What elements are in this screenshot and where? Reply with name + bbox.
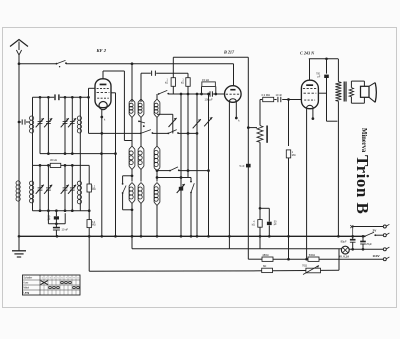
- resistor R 15k bridge: [201, 87, 203, 95]
- wire bus y165 with resistor: [33, 164, 51, 166]
- switch S7 grid: [158, 93, 160, 95]
- trimmer capacitor CT5: [39, 165, 41, 210]
- svg-text:30 kΩ: 30 kΩ: [50, 158, 57, 162]
- trimmer capacitor CT1: [39, 97, 41, 153]
- wire C243N cathode leg: [306, 109, 308, 260]
- coil L3 on antenna line: [16, 181, 20, 185]
- svg-text:70Ω: 70Ω: [302, 264, 307, 268]
- wire plate stub: [318, 92, 326, 94]
- wire y133 tap line: [89, 132, 141, 134]
- capacitor C 5nF: [246, 164, 251, 168]
- wire bottom y271: [89, 270, 262, 272]
- wire KF2 cap to IF tap: [123, 71, 125, 141]
- switch table: [23, 275, 81, 295]
- svg-text:kΩ: kΩ: [181, 82, 184, 85]
- wire drop x181: [180, 94, 182, 236]
- resistor R 1k grid: [172, 57, 174, 78]
- wire drop x89 below bus: [88, 236, 90, 271]
- capacitor C 10nF series: [277, 97, 279, 102]
- antenna: [10, 40, 28, 47]
- wire x248 long vertical: [247, 57, 249, 259]
- switch S2 mid: [138, 120, 140, 122]
- trimmer capacitor CT7: [64, 165, 66, 210]
- svg-text:5 nF: 5 nF: [240, 165, 245, 168]
- svg-text:10 nF: 10 nF: [276, 93, 283, 97]
- svg-text:Schalter: Schalter: [23, 277, 32, 280]
- junction dots on main bus: [18, 235, 21, 238]
- switch S1 on antenna wire: [56, 63, 58, 65]
- coil L1: [32, 97, 34, 116]
- wire oscillator switch line y170: [157, 170, 170, 172]
- wire top y64: [19, 63, 57, 65]
- capacitor C 100pF series: [209, 91, 211, 96]
- svg-text:80μF: 80μF: [341, 239, 347, 243]
- svg-text:480Ω: 480Ω: [262, 253, 268, 257]
- capacitor C 80uF electrolytic: [352, 236, 354, 239]
- tube KF2: [95, 79, 111, 108]
- tube B217 base hump: [229, 99, 236, 102]
- coil L4: [32, 165, 34, 181]
- svg-text:MΩ: MΩ: [92, 189, 96, 191]
- wire bracket y177: [157, 177, 192, 179]
- coil IF1 primary: [131, 64, 133, 102]
- capacitor C 50pF loop: [47, 211, 49, 224]
- svg-text:100 μF: 100 μF: [205, 98, 214, 102]
- svg-text:MΩ: MΩ: [92, 225, 96, 227]
- tube B217: [225, 86, 242, 103]
- tube C243N: [301, 80, 318, 109]
- capacitor C-ant series: [19, 121, 21, 123]
- speaker LS1 secondary loop: [351, 80, 364, 82]
- wire antenna vertical: [18, 55, 20, 181]
- wire resistor line y259: [248, 258, 262, 260]
- trimmer capacitor CT11 drop x197: [196, 94, 198, 236]
- wire KF2 top cap: [102, 71, 104, 79]
- trimmer capacitor CT2: [47, 97, 49, 153]
- wire top y57: [173, 56, 248, 58]
- terminal T-110V: [383, 258, 386, 261]
- svg-text:MΩ: MΩ: [292, 154, 296, 157]
- terminal T-2V: [383, 234, 386, 237]
- terminal T-top: [383, 225, 386, 228]
- switch S6 vertical: [190, 178, 192, 182]
- resistor R 480ohm: [262, 257, 273, 261]
- svg-text:Minerva: Minerva: [360, 128, 367, 153]
- svg-text:Kurz: Kurz: [23, 282, 29, 285]
- svg-text:15 kΩ: 15 kΩ: [202, 78, 209, 82]
- resistor R 8ohm: [262, 268, 273, 272]
- table marks: [41, 281, 48, 285]
- svg-text:0,3 MΩ: 0,3 MΩ: [262, 93, 270, 97]
- wire y73 coupling: [141, 72, 151, 74]
- ground: [18, 236, 20, 250]
- resistor R 500ohm: [308, 257, 319, 261]
- wire B217 grid cap drop: [233, 64, 235, 86]
- resistor R 1k second: [187, 73, 189, 78]
- trimmer capacitor CT9: [172, 114, 174, 133]
- capacitor C-series on bus y97: [54, 94, 56, 100]
- capacitor C 10nF to chassis: [55, 224, 57, 228]
- transformer T1 core: [343, 82, 345, 102]
- wire bus2 y248: [131, 236, 133, 249]
- wire plate top y58: [309, 59, 311, 80]
- resistor R 1.2M: [88, 165, 90, 184]
- wire corner up x339: [338, 249, 340, 270]
- wire B217 cathode leg: [235, 102, 237, 119]
- capacitor C-series y73: [151, 71, 153, 76]
- wire B217 anode leg: [228, 102, 230, 249]
- wire bus y210: [33, 210, 90, 212]
- switch S4 jog left: [123, 175, 132, 177]
- lamp LA1 4V: [341, 246, 349, 254]
- svg-text:4V, 0,1A: 4V, 0,1A: [339, 255, 350, 259]
- speaker LS1 driver: [361, 86, 370, 97]
- switch S8 2V: [364, 235, 366, 237]
- wire KF2 cathode: [101, 110, 103, 237]
- wire y118 stub: [157, 113, 173, 115]
- wire KF2 grid left: [89, 87, 96, 89]
- trimmer capacitor CT6: [47, 165, 49, 210]
- resistor R 3.4M: [87, 220, 91, 228]
- svg-text:Trion B: Trion B: [353, 155, 372, 214]
- transformer T1 primary: [337, 59, 339, 82]
- svg-text:Mittel: Mittel: [23, 287, 29, 290]
- wire pot stub: [248, 127, 257, 129]
- wire bus y153: [40, 153, 116, 155]
- resistor R 0.3M: [263, 97, 274, 101]
- switch S5: [169, 170, 171, 172]
- wire C243N k leg: [312, 109, 314, 120]
- svg-text:25μF: 25μF: [366, 243, 372, 246]
- resistor R 30k: [50, 163, 61, 167]
- wire to transformer bottom: [327, 120, 338, 122]
- switch S3a on tap line: [140, 133, 142, 135]
- coil L2: [79, 97, 81, 116]
- coil IF1 secondary: [140, 73, 142, 102]
- terminal T-4V: [383, 248, 386, 251]
- svg-text:KF 2: KF 2: [96, 48, 107, 53]
- resistor R 1M: [288, 100, 290, 147]
- tube KF2 base circle: [99, 102, 107, 110]
- capacitor C 50uF cathode: [260, 207, 269, 209]
- svg-text:Lang: Lang: [23, 292, 29, 295]
- coil oscillator: [156, 94, 158, 99]
- trimmer capacitor CT8: [71, 165, 73, 210]
- svg-text:500Ω: 500Ω: [309, 253, 315, 257]
- svg-text:8Ω: 8Ω: [263, 265, 266, 268]
- resistor R 70ohm variable: [306, 268, 321, 273]
- wire terminal line y226: [353, 226, 384, 228]
- trimmer capacitor CT3: [64, 97, 66, 153]
- svg-text:kΩ: kΩ: [165, 82, 168, 85]
- wire detector y99: [260, 99, 262, 101]
- trimmer capacitor CT10 padder: [179, 187, 183, 191]
- svg-text:110V: 110V: [373, 254, 381, 258]
- trimmer capacitor CT4: [71, 97, 73, 153]
- tube C243N base hump: [306, 105, 313, 108]
- capacitor C 700pF: [326, 59, 328, 74]
- wire main bus y236: [19, 235, 365, 237]
- trimmer capacitor CT12 drop x208: [208, 94, 210, 236]
- switch S3b on tap line: [167, 133, 169, 135]
- wire bus y97: [33, 96, 55, 98]
- svg-text:kΩ: kΩ: [252, 224, 255, 227]
- wire grid line y94: [168, 93, 209, 95]
- capacitor C 25uF electrolytic: [362, 236, 364, 241]
- potentiometer P1: [259, 100, 261, 126]
- coil L5: [79, 165, 81, 181]
- svg-text:B 217: B 217: [223, 50, 235, 55]
- svg-text:C 243 N: C 243 N: [300, 51, 315, 56]
- resistor R 4k: [259, 208, 261, 219]
- wire KF2 anode side: [111, 92, 116, 94]
- svg-text:10 nF: 10 nF: [62, 227, 69, 231]
- speaker LS1 cone: [369, 83, 375, 87]
